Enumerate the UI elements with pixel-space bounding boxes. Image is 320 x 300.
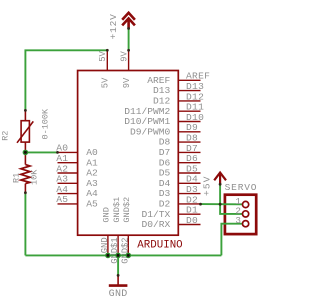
pin D1 xyxy=(178,213,200,215)
wire GND pin to ground symbol xyxy=(117,255,119,275)
pin D10 xyxy=(178,121,200,123)
junction R1/R2/A0 xyxy=(23,150,29,156)
pin D3 xyxy=(178,193,200,195)
pin D2 xyxy=(178,203,200,205)
svg-text:GND$1: GND$1 xyxy=(112,197,122,223)
wire end dot xyxy=(127,27,130,30)
pin AREF xyxy=(178,79,200,81)
wire servo pin 3 to ground bus xyxy=(221,224,242,256)
pin A4 xyxy=(58,193,78,195)
servo pin 3 xyxy=(243,221,249,227)
wire end dot xyxy=(219,183,222,186)
pin D11 xyxy=(178,110,200,112)
svg-text:0-100K: 0-100K xyxy=(41,108,51,140)
pin D0 xyxy=(178,224,200,226)
wire 5V to R2 top xyxy=(25,50,107,110)
svg-text:GND: GND xyxy=(102,207,112,222)
servo pin 1 xyxy=(243,201,249,207)
resistor R1 leads xyxy=(24,152,26,164)
resistor R2 leads xyxy=(24,110,26,120)
svg-text:9V: 9V xyxy=(122,77,132,88)
svg-text:GND: GND xyxy=(109,289,128,300)
pin A5 xyxy=(58,203,78,205)
+12V supply symbol xyxy=(122,13,135,29)
wire R1 bottom to ground bus xyxy=(24,193,26,256)
svg-text:9V: 9V xyxy=(119,50,129,61)
svg-text:D0: D0 xyxy=(186,215,198,226)
svg-text:A5: A5 xyxy=(56,194,68,205)
pin D7 xyxy=(178,151,200,153)
wire end dot xyxy=(56,151,59,154)
pin D13 xyxy=(178,90,200,92)
pin D6 xyxy=(178,162,200,164)
junction GND bus x=128.3 xyxy=(126,253,132,259)
svg-text:+12V: +12V xyxy=(108,13,119,39)
pin D8 xyxy=(178,141,200,143)
+5V supply symbol xyxy=(214,173,226,185)
svg-text:ARDUINO: ARDUINO xyxy=(137,240,182,252)
svg-text:R2: R2 xyxy=(0,131,10,141)
wire D2 to servo pin 1 xyxy=(201,203,243,205)
pin D5 xyxy=(178,172,200,174)
pin GND xyxy=(107,235,109,255)
resistor R1 xyxy=(21,165,30,184)
junction GND bus x=107.9 xyxy=(105,253,111,259)
resistor R2 xyxy=(21,121,29,142)
pin 5V xyxy=(106,50,108,70)
svg-text:3: 3 xyxy=(235,215,241,226)
svg-text:R1: R1 xyxy=(12,173,22,183)
servo connector J1 xyxy=(225,195,256,234)
svg-text:SERVO: SERVO xyxy=(225,182,258,193)
pin GND$2 xyxy=(127,235,129,255)
pin A2 xyxy=(58,172,78,174)
pin 9V xyxy=(128,50,130,70)
pin A3 xyxy=(58,182,78,184)
wire end dot xyxy=(219,203,222,206)
wire end dot xyxy=(106,49,109,52)
svg-text:GND$2: GND$2 xyxy=(120,237,130,263)
wire ground bus xyxy=(25,254,221,256)
wire end dot xyxy=(199,203,202,206)
junction GND bus x=118.1 xyxy=(115,253,121,259)
ground symbol xyxy=(117,275,119,285)
pin A0 xyxy=(58,151,78,153)
svg-text:10K: 10K xyxy=(29,169,39,185)
pin D4 xyxy=(178,182,200,184)
wire end dot xyxy=(24,191,27,194)
pin A1 xyxy=(58,162,78,164)
wire end dot xyxy=(127,49,130,52)
svg-text:5V: 5V xyxy=(101,77,111,88)
wire +5V to servo pin 2 xyxy=(220,184,242,214)
wire junction to A0 xyxy=(25,151,57,153)
wire end dot xyxy=(24,109,27,112)
svg-text:D0/RX: D0/RX xyxy=(142,219,171,230)
pin D9 xyxy=(178,131,200,133)
svg-text:5V: 5V xyxy=(98,50,108,61)
Arduino body xyxy=(78,71,179,236)
svg-text:GND$2: GND$2 xyxy=(122,197,132,223)
wire 9V to +12V supply xyxy=(128,29,130,51)
pin D12 xyxy=(178,100,200,102)
pin GND$1 xyxy=(117,235,119,255)
svg-text:+5V: +5V xyxy=(202,175,213,196)
wire end dot xyxy=(117,274,120,277)
svg-text:A5: A5 xyxy=(86,199,98,210)
svg-text:GND: GND xyxy=(100,237,110,253)
servo pin 2 xyxy=(243,211,249,217)
